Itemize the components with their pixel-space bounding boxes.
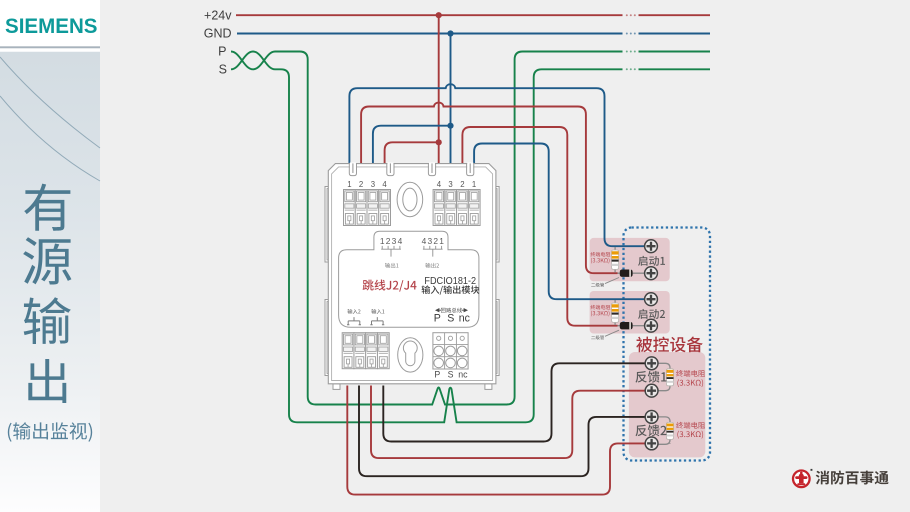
label 二级管 D2 bbox=[591, 330, 619, 339]
svg-text:S: S bbox=[448, 370, 454, 380]
screw terminal 启动2 minus bbox=[645, 319, 658, 332]
svg-text:4: 4 bbox=[437, 180, 442, 189]
svg-text:SIEMENS: SIEMENS bbox=[5, 15, 98, 38]
wire bottom terminal3 to 反馈1 minus bbox=[371, 386, 645, 459]
svg-text:nc: nc bbox=[458, 370, 468, 380]
resistor R1 终端电阻 启动1 bbox=[612, 247, 619, 273]
svg-text:4: 4 bbox=[422, 236, 427, 246]
sidebar decorative arcs bbox=[0, 57, 100, 181]
loop terminal block P S nc bbox=[433, 333, 468, 369]
label 回路总线 with arrows bbox=[435, 308, 468, 313]
terminal block top-left terminals 1-4 bbox=[344, 190, 391, 226]
wire GND drop to terminal 3 bbox=[450, 34, 452, 164]
label 终端电阻 R3 bbox=[676, 370, 705, 387]
screw terminal 反馈2 minus bbox=[645, 437, 658, 450]
svg-text:+24v: +24v bbox=[204, 8, 232, 22]
svg-text:3: 3 bbox=[448, 180, 452, 189]
label 输入/输出模块 bbox=[422, 285, 480, 294]
dotted boundary 被控设备 group bbox=[624, 228, 711, 461]
svg-text:3: 3 bbox=[427, 236, 432, 246]
label P S nc (loop bus) bbox=[434, 313, 471, 325]
sidebar subtitle (输出监视) bbox=[8, 422, 92, 442]
mounting keyhole bottom bbox=[398, 338, 423, 372]
wire bottom terminal4 to 反馈1 plus bbox=[383, 363, 645, 441]
input bracket 输入2 bbox=[347, 317, 361, 325]
svg-text:P: P bbox=[434, 313, 441, 325]
terminal block bottom-left terminals bbox=[342, 333, 389, 369]
label FDCIO181-2 bbox=[424, 276, 476, 287]
controlled device block 启动1 bbox=[590, 238, 670, 281]
label +24v bbox=[204, 8, 232, 22]
controlled device block 反馈1/反馈2 bbox=[629, 352, 705, 457]
wire GND bus bbox=[237, 33, 710, 35]
svg-text:3: 3 bbox=[371, 180, 375, 189]
label S bbox=[219, 63, 227, 77]
svg-text:1: 1 bbox=[439, 236, 444, 246]
wire GND branch to left terminal 3 bbox=[373, 126, 451, 164]
wire terminal1 to 启动1 plus bbox=[349, 84, 644, 246]
svg-text:1: 1 bbox=[347, 180, 351, 189]
terminal number labels bbox=[347, 180, 476, 189]
wire bottom terminal1 to 反馈2 minus bbox=[347, 386, 645, 495]
screw terminal 启动1 plus bbox=[645, 240, 658, 253]
resistor R3 终端电阻 反馈1 bbox=[658, 363, 674, 390]
mounting hole top bbox=[397, 182, 423, 216]
svg-text:4: 4 bbox=[398, 236, 403, 246]
screw terminal 反馈2 plus bbox=[645, 411, 658, 424]
svg-text:1: 1 bbox=[472, 180, 476, 189]
controlled device block 启动2 bbox=[590, 291, 670, 334]
svg-text:P: P bbox=[218, 45, 226, 59]
label 输出1 bbox=[385, 263, 399, 268]
diode D2 二级管 启动2 bbox=[618, 322, 646, 329]
label 启动1 bbox=[638, 256, 665, 266]
screw terminal 启动2 plus bbox=[645, 293, 658, 306]
svg-text:P: P bbox=[434, 370, 440, 380]
svg-text:3: 3 bbox=[392, 236, 397, 246]
wire right terminal2 to 启动2 minus bbox=[462, 127, 617, 326]
junction dot +24v bus bbox=[436, 12, 442, 18]
wire terminal2 to 启动1 minus bbox=[361, 103, 617, 274]
wire +24v drop to terminal 4 bbox=[438, 15, 440, 163]
jumper J2 header 1234 bbox=[380, 236, 403, 256]
SIEMENS logo bbox=[5, 15, 98, 38]
label 反馈2 bbox=[636, 425, 667, 437]
sidebar panel bbox=[0, 0, 100, 512]
svg-text:1: 1 bbox=[380, 236, 385, 246]
label 输出2 bbox=[425, 263, 438, 268]
wire right terminal1 to 启动2 plus bbox=[474, 144, 645, 300]
junction dot +24v branch bbox=[436, 139, 442, 145]
svg-text:S: S bbox=[219, 63, 227, 77]
resistor R4 终端电阻 反馈2 bbox=[658, 417, 674, 444]
label 反馈1 bbox=[635, 371, 666, 383]
label 启动2 bbox=[638, 309, 665, 319]
junction dot GND bus bbox=[447, 30, 453, 36]
sidebar title 有源输出 bbox=[23, 184, 71, 403]
label P bbox=[218, 45, 226, 59]
diode D1 二级管 启动1 bbox=[618, 270, 646, 277]
svg-text:FDCIO181-2: FDCIO181-2 bbox=[424, 276, 476, 287]
label 终端电阻 R4 bbox=[676, 422, 705, 439]
module FDCIO181-2 housing bbox=[325, 163, 499, 390]
label 终端电阻 R2 bbox=[590, 305, 610, 316]
logo 消防百事通 bbox=[793, 469, 889, 487]
terminal block top-right terminals 4-1 bbox=[433, 190, 480, 226]
input bracket 输入1 bbox=[370, 317, 384, 325]
svg-text:2: 2 bbox=[433, 236, 438, 246]
svg-text:GND: GND bbox=[204, 27, 232, 41]
svg-text:nc: nc bbox=[459, 313, 471, 325]
wire bottom terminal2 to 反馈2 plus bbox=[359, 386, 645, 477]
label GND bbox=[204, 27, 232, 41]
screw terminal 反馈1 plus bbox=[645, 357, 658, 370]
resistor R2 终端电阻 启动2 bbox=[612, 300, 619, 325]
svg-text:4: 4 bbox=[382, 180, 387, 189]
svg-text:2: 2 bbox=[386, 236, 391, 246]
label 跳线J2/J4 bbox=[363, 280, 417, 292]
svg-text:2: 2 bbox=[359, 180, 363, 189]
label 输入2 bbox=[348, 309, 361, 314]
svg-text:2: 2 bbox=[460, 180, 464, 189]
label 输入1 bbox=[371, 309, 384, 314]
label 被控设备 bbox=[636, 337, 702, 353]
label P S nc under block bbox=[434, 370, 468, 380]
junction dot GND branch bbox=[447, 123, 453, 129]
wire +24v bus bbox=[236, 14, 710, 16]
screw terminal 反馈1 minus bbox=[645, 384, 658, 397]
screw terminal 启动1 minus bbox=[645, 267, 658, 280]
label 终端电阻 R1 bbox=[590, 252, 610, 263]
wire P loop (twisted pair, down left side, to P terminal, back up, continues) bbox=[231, 51, 710, 405]
wire +24v branch to left terminal 4 bbox=[385, 142, 439, 163]
label 二级管 D1 bbox=[591, 278, 619, 287]
svg-text:S: S bbox=[447, 313, 454, 325]
inner panel bbox=[339, 231, 479, 327]
jumper J4 header 4321 bbox=[422, 236, 445, 256]
wire S loop (twisted pair, down left side, to S terminal, back up, continues) bbox=[231, 52, 710, 423]
